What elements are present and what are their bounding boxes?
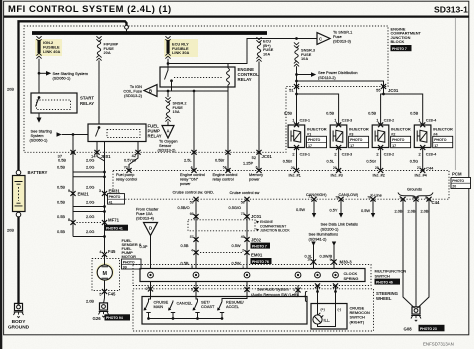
- svg-text:C44: C44: [432, 200, 440, 205]
- svg-text:relay control: relay control: [213, 177, 234, 182]
- svg-text:3: 3: [412, 196, 414, 200]
- svg-text:20A: 20A: [104, 50, 111, 55]
- svg-text:2.0G: 2.0G: [86, 229, 94, 234]
- svg-text:PHOTO 46: PHOTO 46: [376, 280, 393, 284]
- svg-text:0.5B: 0.5B: [326, 111, 334, 116]
- svg-text:GROUND: GROUND: [8, 325, 30, 331]
- svg-text:Cruise control sw: Cruise control sw: [230, 190, 260, 195]
- ground G08: [411, 307, 421, 321]
- svg-text:0.5B: 0.5B: [58, 158, 66, 163]
- svg-text:57: 57: [190, 235, 194, 239]
- svg-text:17: 17: [350, 144, 354, 148]
- wire: 0.3W/B: [333, 245, 335, 269]
- fusible link ECU RLY 30A: [165, 36, 170, 41]
- svg-text:COAST: COAST: [201, 304, 215, 309]
- svg-text:C28-2: C28-2: [384, 151, 395, 156]
- CAN lines with arrows to data link: [313, 199, 315, 213]
- wire: 2.5L into PCM pin 4: [193, 152, 195, 170]
- svg-text:M: M: [103, 271, 108, 277]
- svg-text:PHOTO: PHOTO: [452, 179, 464, 183]
- svg-text:0.5W: 0.5W: [232, 243, 241, 248]
- svg-text:relay control: relay control: [116, 177, 137, 182]
- svg-text:Grounds: Grounds: [407, 187, 422, 192]
- svg-text:0.3P: 0.3P: [140, 244, 148, 249]
- injector 2: [366, 111, 411, 171]
- engine compartment junction block dashed boundary: [24, 26, 388, 152]
- engine control relay linkage (dashed): [174, 77, 222, 79]
- svg-text:JUNCTION BLOCK: JUNCTION BLOCK: [260, 229, 290, 233]
- svg-text:LINK 30A: LINK 30A: [172, 50, 189, 55]
- pin 5 F45: [102, 289, 107, 294]
- svg-text:20: 20: [452, 185, 456, 189]
- svg-text:0.5W: 0.5W: [232, 261, 241, 266]
- wire: ECU RLY link into engine control relay: [167, 59, 169, 71]
- wire: start relay output down: [38, 113, 40, 118]
- svg-text:JC01: JC01: [262, 154, 273, 159]
- PCM dashed box: [113, 171, 449, 200]
- svg-text:F45: F45: [108, 249, 116, 254]
- svg-text:1: 1: [334, 118, 336, 123]
- wire: ground 3 2.0B: [418, 199, 430, 308]
- svg-text:20B: 20B: [7, 87, 14, 92]
- svg-text:C28-3: C28-3: [342, 151, 353, 156]
- svg-text:0.5B: 0.5B: [284, 111, 292, 116]
- svg-text:JC01: JC01: [388, 88, 399, 93]
- svg-text:99: 99: [123, 266, 127, 270]
- wire: coil feed to SNSR.3 branch riser: [168, 39, 317, 64]
- triangle C: to SNSR.1 fuse: [317, 33, 330, 45]
- injector 4: [410, 111, 453, 171]
- svg-text:0.5B: 0.5B: [410, 111, 418, 116]
- svg-text:SWITCH: SWITCH: [375, 273, 391, 278]
- switch common bus: [149, 318, 223, 320]
- cruise main switch: [149, 297, 151, 302]
- wire: relay to fuel pump motor trunk: [104, 142, 106, 153]
- svg-text:(SD941-2): (SD941-2): [309, 236, 328, 241]
- fuel pump relay switch: [98, 126, 101, 129]
- svg-text:C28-1: C28-1: [300, 151, 311, 156]
- svg-text:0.5B: 0.5B: [181, 243, 189, 248]
- resume/accel switch: [219, 297, 248, 310]
- svg-text:CANCEL: CANCEL: [177, 301, 194, 306]
- svg-text:(SD110-2): (SD110-2): [318, 75, 336, 80]
- wire: feed to injector 3: [297, 94, 339, 125]
- svg-text:2: 2: [334, 151, 336, 156]
- svg-text:2.0G: 2.0G: [86, 214, 94, 219]
- svg-text:BLOCK: BLOCK: [391, 39, 405, 44]
- wire: fuel pump relay control 0.5Y/O: [137, 142, 139, 153]
- svg-text:5: 5: [99, 292, 101, 297]
- svg-text:C28-3: C28-3: [342, 118, 353, 123]
- svg-text:9: 9: [330, 258, 332, 262]
- svg-text:PHOTO: PHOTO: [350, 138, 363, 142]
- svg-text:55: 55: [376, 88, 380, 93]
- svg-text:20B: 20B: [7, 228, 14, 233]
- svg-text:77: 77: [308, 195, 312, 199]
- svg-text:2.0G: 2.0G: [86, 200, 94, 205]
- svg-text:WHEEL: WHEEL: [376, 296, 392, 301]
- wire: JE01 pin14 jog to trunk: [97, 152, 105, 161]
- svg-text:INJ. #3: INJ. #3: [331, 173, 343, 178]
- svg-text:2.0B: 2.0B: [408, 209, 416, 214]
- wire: injector 1 drop: [296, 94, 298, 125]
- fuel pump relay box: [88, 124, 146, 142]
- svg-text:INJ. #1: INJ. #1: [289, 173, 301, 178]
- svg-text:(SD313-3): (SD313-3): [333, 39, 352, 44]
- svg-text:MFI CONTROL SYSTEM (2.4L) (1): MFI CONTROL SYSTEM (2.4L) (1): [8, 3, 172, 14]
- svg-text:D: D: [149, 226, 152, 231]
- svg-text:PHOTO 94: PHOTO 94: [106, 316, 123, 320]
- svg-text:(Audio Remocon SW (Left)): (Audio Remocon SW (Left)): [251, 292, 299, 297]
- fuel pump relay coil (dashed): [107, 130, 140, 138]
- wire: 0.5B down to JE01: [72, 135, 74, 153]
- svg-text:SPRING: SPRING: [344, 276, 359, 281]
- svg-text:G26: G26: [93, 316, 102, 321]
- wire: feed to injector 2 and 4: [381, 94, 423, 125]
- svg-text:PHOTO: PHOTO: [109, 195, 121, 199]
- svg-text:2.5L: 2.5L: [184, 158, 192, 163]
- svg-text:17: 17: [392, 144, 396, 148]
- svg-text:MOTOR: MOTOR: [122, 254, 137, 259]
- svg-text:2: 2: [242, 248, 244, 252]
- svg-text:0.5Br: 0.5Br: [215, 158, 225, 163]
- svg-text:RELAY: RELAY: [80, 101, 94, 106]
- wire into motor: [104, 255, 106, 265]
- pin 55 JC01: [381, 84, 386, 89]
- arrow: from starting system into 0.5B wire: [57, 132, 62, 137]
- title rule: [4, 16, 469, 18]
- illumination lamp: [313, 315, 322, 324]
- fuel pump motor: [97, 265, 112, 280]
- fuse F/PUMP 20A: [96, 36, 101, 41]
- svg-text:ENFSD7313AN: ENFSD7313AN: [423, 342, 454, 347]
- connector row JE02: [193, 237, 198, 242]
- svg-text:{: {: [304, 289, 308, 303]
- svg-text:15A: 15A: [173, 109, 180, 114]
- start relay coil (dashed): [37, 100, 71, 110]
- wire: f/pump fuse to fuel pump relay: [98, 60, 100, 124]
- triangle D: [144, 223, 158, 236]
- svg-text:F45: F45: [108, 292, 116, 297]
- arrow: to starting system: [37, 118, 42, 123]
- svg-text:PHOTO: PHOTO: [392, 138, 405, 142]
- svg-text:START: START: [80, 96, 94, 101]
- wire: 0.3L: [313, 245, 315, 269]
- svg-text:0.5B: 0.5B: [57, 214, 65, 219]
- start relay box: [31, 93, 77, 113]
- grounds brace: [398, 193, 433, 199]
- svg-text:EM01: EM01: [251, 253, 263, 258]
- svg-text:PHOTO: PHOTO: [434, 138, 447, 142]
- svg-text:0.5B: 0.5B: [57, 229, 65, 234]
- svg-text:0.5B: 0.5B: [57, 165, 65, 170]
- svg-text:ACCEL: ACCEL: [226, 304, 240, 309]
- photo tag PHOTO 7: [391, 45, 412, 51]
- svg-text:0.5B: 0.5B: [368, 111, 376, 116]
- svg-text:0.5Gr: 0.5Gr: [366, 159, 376, 164]
- svg-text:58: 58: [241, 201, 245, 205]
- scan crease line: [454, 18, 456, 171]
- wire: SNSR.3 down to injector feed: [296, 66, 298, 94]
- svg-text:EM31: EM31: [109, 189, 121, 194]
- ground: body ground: [14, 303, 24, 317]
- battery: [16, 170, 21, 175]
- ECU (B+) fuse 10A: [256, 37, 261, 42]
- svg-text:PHOTO 41: PHOTO 41: [106, 227, 123, 231]
- highlight on battery: [13, 176, 25, 211]
- wire: ECU B+ memory power down: [258, 61, 260, 170]
- svg-text:LINK 40A: LINK 40A: [43, 49, 60, 54]
- svg-text:C44: C44: [426, 166, 434, 171]
- arrow: see starting system: [46, 71, 51, 76]
- svg-text:SD313-1: SD313-1: [434, 5, 468, 15]
- svg-text:(RIGHT): (RIGHT): [350, 319, 365, 324]
- svg-text:A: A: [166, 128, 169, 133]
- injector 1: [283, 111, 327, 171]
- wire: 2.0B to ground: [104, 292, 105, 304]
- node: battery feed bullet connector: [125, 25, 129, 29]
- wire: bullet to bus bar: [126, 29, 128, 32]
- svg-text:(SD060-1): (SD060-1): [30, 138, 49, 143]
- svg-text:76: 76: [367, 196, 371, 200]
- svg-text:17: 17: [434, 144, 438, 148]
- PCM bottom pins: [193, 197, 198, 202]
- svg-text:2: 2: [419, 151, 421, 156]
- connector row JE01/JC01 pins on junction block bottom: [70, 150, 75, 155]
- svg-text:B: B: [149, 89, 152, 94]
- engine control relay coil: [227, 68, 230, 85]
- svg-text:1.25P: 1.25P: [243, 161, 254, 166]
- svg-text:3: 3: [99, 188, 101, 193]
- svg-text:C: C: [319, 37, 322, 42]
- svg-text:(SD313-2): (SD313-2): [124, 93, 143, 98]
- svg-text:0.5G/O: 0.5G/O: [229, 205, 242, 210]
- junction block mini dashed box: [188, 220, 255, 231]
- svg-text:CAN(LOW): CAN(LOW): [339, 192, 359, 197]
- svg-text:78: 78: [335, 195, 339, 199]
- clock spring band: [140, 269, 365, 282]
- svg-text:0.5L: 0.5L: [327, 159, 335, 164]
- wire: 2.0G trunk: [104, 152, 106, 253]
- svg-text:9: 9: [68, 188, 70, 193]
- svg-text:41: 41: [109, 201, 113, 205]
- fusible link IGN.2 40A: [36, 36, 41, 41]
- cancel switch: [170, 301, 174, 310]
- svg-text:PHOTO: PHOTO: [123, 260, 135, 264]
- fuel pump motor dotted box: [92, 259, 120, 291]
- svg-text:C28-4: C28-4: [426, 118, 437, 123]
- svg-text:66: 66: [190, 212, 194, 216]
- svg-text:C28-2: C28-2: [384, 118, 395, 123]
- start relay switch: [38, 96, 41, 99]
- svg-text:51: 51: [289, 88, 293, 93]
- svg-text:73: 73: [241, 212, 245, 216]
- arrow: see power distribution: [297, 74, 312, 76]
- wire: feed to right injector bank: [297, 81, 384, 94]
- svg-text:(-): (-): [338, 308, 341, 312]
- cruise switch box: [142, 297, 307, 325]
- steering wheel dashed box: [133, 289, 374, 331]
- svg-text:(+): (+): [321, 308, 325, 312]
- node: starting system tap: [38, 72, 41, 75]
- wire: B line under relay: [157, 90, 228, 92]
- svg-text:2.0B: 2.0B: [86, 299, 94, 304]
- ladder rungs: [73, 171, 105, 173]
- svg-text:10A: 10A: [263, 52, 270, 57]
- wire: battery negative cable 20B: [17, 217, 19, 305]
- svg-text:2.0B: 2.0B: [421, 209, 429, 214]
- highlight fuel pump motor: [96, 263, 114, 281]
- svg-text:JC01: JC01: [251, 214, 262, 219]
- connector row JC01: [193, 214, 198, 219]
- connector row EM21 / EM31: [70, 191, 75, 196]
- svg-text:3: 3: [191, 288, 193, 292]
- fuse SNSR.2 15A: [167, 91, 169, 97]
- pin 51: [294, 84, 299, 89]
- wire: relay control 0.5Br down: [227, 91, 229, 152]
- engine control relay box: [160, 67, 235, 87]
- svg-text:power: power: [249, 177, 260, 182]
- triangle A: to oxygen sensor: [162, 126, 174, 139]
- svg-text:(SD313-4): (SD313-4): [136, 216, 155, 221]
- svg-text:INJ. #2: INJ. #2: [373, 173, 385, 178]
- svg-text:JE02: JE02: [251, 238, 262, 243]
- svg-text:1: 1: [292, 118, 294, 123]
- cruise remocon wires: [317, 286, 319, 315]
- wire: ground 1 2.0B: [403, 199, 415, 308]
- svg-text:0.5G: 0.5G: [410, 159, 418, 164]
- ground G26: [99, 303, 109, 317]
- svg-text:2.0B: 2.0B: [395, 209, 403, 214]
- wire: 0.5B ladder left rail: [72, 152, 74, 236]
- PCM top pins: [126, 168, 131, 173]
- svg-text:2.0G: 2.0G: [86, 158, 94, 163]
- svg-text:1: 1: [419, 118, 421, 123]
- node: relay coil feed tap: [167, 62, 170, 65]
- svg-text:K-Line: K-Line: [371, 193, 382, 198]
- svg-text:power: power: [180, 181, 191, 186]
- svg-text:2.0G: 2.0G: [86, 185, 94, 190]
- svg-text:2.0G: 2.0G: [86, 165, 94, 170]
- highlight on IGN.2 fusible link: [35, 39, 62, 56]
- svg-text:1: 1: [376, 118, 378, 123]
- svg-text:8: 8: [68, 217, 70, 222]
- svg-text:0.5B: 0.5B: [57, 200, 65, 205]
- svg-text:Cruise control sw. GND.: Cruise control sw. GND.: [173, 190, 215, 195]
- wire: battery positive cable 20B: [19, 21, 127, 172]
- wire: ground 2 2.0B: [415, 199, 417, 307]
- svg-text:PHOTO 23: PHOTO 23: [420, 327, 437, 331]
- clock spring outer dashed: [133, 265, 371, 286]
- svg-text:C28-1: C28-1: [300, 118, 311, 123]
- injector 3: [326, 111, 369, 171]
- wire: relay to JE01 pin 14: [96, 142, 98, 153]
- node: injector right bank tap: [295, 80, 298, 83]
- power bus bar: [32, 31, 267, 35]
- svg-text:INJ. #4: INJ. #4: [415, 173, 428, 178]
- svg-text:See Audio System: See Audio System: [257, 287, 289, 292]
- svg-text:0.5W: 0.5W: [361, 208, 370, 213]
- wire: into fuel pump relay: [62, 134, 88, 136]
- connector row EM01: [193, 250, 198, 255]
- svg-text:JE01: JE01: [101, 154, 112, 159]
- svg-text:0.5B/O: 0.5B/O: [178, 205, 190, 210]
- svg-text:0.5Y: 0.5Y: [330, 208, 338, 213]
- wire: 0.5Y/O jog into PCM pin 70: [129, 152, 138, 170]
- svg-text:MAIN: MAIN: [154, 304, 164, 309]
- svg-text:PHOTO 7: PHOTO 7: [392, 47, 407, 51]
- svg-text:PHOTO 76: PHOTO 76: [252, 260, 269, 264]
- svg-text:52: 52: [252, 155, 256, 160]
- fuse SNSR.3 10A: [294, 42, 299, 47]
- wire: coil bottom to B line: [227, 85, 229, 91]
- triangle B: to IGN coil fuse: [144, 85, 157, 97]
- wire: IGN.2 link to start relay: [38, 59, 40, 93]
- wire: relay ON power 2.5L down: [193, 91, 195, 152]
- wire: 0.3P cruise main feed: [150, 236, 152, 269]
- svg-text:MF71: MF71: [108, 218, 120, 223]
- svg-text:(SD060-1): (SD060-1): [53, 76, 72, 81]
- pin 4 F45: [102, 252, 107, 257]
- svg-text:0.5B: 0.5B: [181, 261, 189, 266]
- svg-text:PHOTO 7: PHOTO 7: [252, 244, 267, 248]
- svg-text:EM21: EM21: [78, 192, 90, 197]
- connector row MF71: [70, 220, 75, 225]
- svg-text:10: 10: [307, 258, 311, 262]
- svg-text:2: 2: [376, 151, 378, 156]
- wires through clock spring down to switches: [150, 282, 152, 297]
- svg-text:G08: G08: [404, 327, 413, 332]
- svg-text:PCM: PCM: [452, 172, 462, 177]
- wire: 0.5Br into PCM pin 54: [227, 152, 229, 170]
- svg-text:(SD313-2): (SD313-2): [158, 148, 177, 153]
- svg-text:1: 1: [399, 195, 401, 199]
- node: SNSR.3 tap: [295, 37, 298, 40]
- wire: cruise control sw GND 0.5B: [195, 199, 197, 268]
- svg-text:2: 2: [292, 151, 294, 156]
- wire: coil top stub: [227, 64, 229, 69]
- engine control relay switch: [165, 70, 169, 80]
- connector M30-3: [311, 259, 316, 264]
- highlight on ECU RLY fusible link: [164, 39, 198, 57]
- svg-text:17: 17: [308, 144, 312, 148]
- illumination feed arrows: [311, 242, 315, 247]
- svg-text:M30-3: M30-3: [340, 260, 353, 265]
- svg-text:0.5B: 0.5B: [57, 185, 65, 190]
- svg-text:BODY: BODY: [12, 319, 27, 325]
- set/coast switch: [194, 297, 198, 310]
- wire: cruise control sw 0.5W: [246, 199, 248, 268]
- svg-text:BATTERY: BATTERY: [28, 170, 48, 175]
- svg-text:4: 4: [191, 248, 193, 252]
- svg-text:PHOTO: PHOTO: [308, 138, 321, 142]
- page left scan edge: [0, 0, 2, 349]
- node: power distribution tap: [295, 73, 298, 76]
- svg-text:ILL.: ILL.: [324, 318, 331, 323]
- svg-text:C28-4: C28-4: [426, 151, 437, 156]
- svg-text:0.5W: 0.5W: [296, 207, 305, 212]
- svg-text:RELAY: RELAY: [238, 77, 252, 82]
- svg-text:0.5Br: 0.5Br: [283, 159, 293, 164]
- cruise remocon switch box: [311, 304, 347, 330]
- svg-text:0.5Y/O: 0.5Y/O: [124, 158, 136, 163]
- svg-text:49: 49: [241, 235, 245, 239]
- svg-text:59: 59: [190, 201, 194, 205]
- node: 0.5B branch: [72, 133, 75, 136]
- svg-text:2: 2: [146, 287, 148, 291]
- svg-text:5: 5: [425, 196, 427, 200]
- svg-text:10A: 10A: [301, 56, 308, 61]
